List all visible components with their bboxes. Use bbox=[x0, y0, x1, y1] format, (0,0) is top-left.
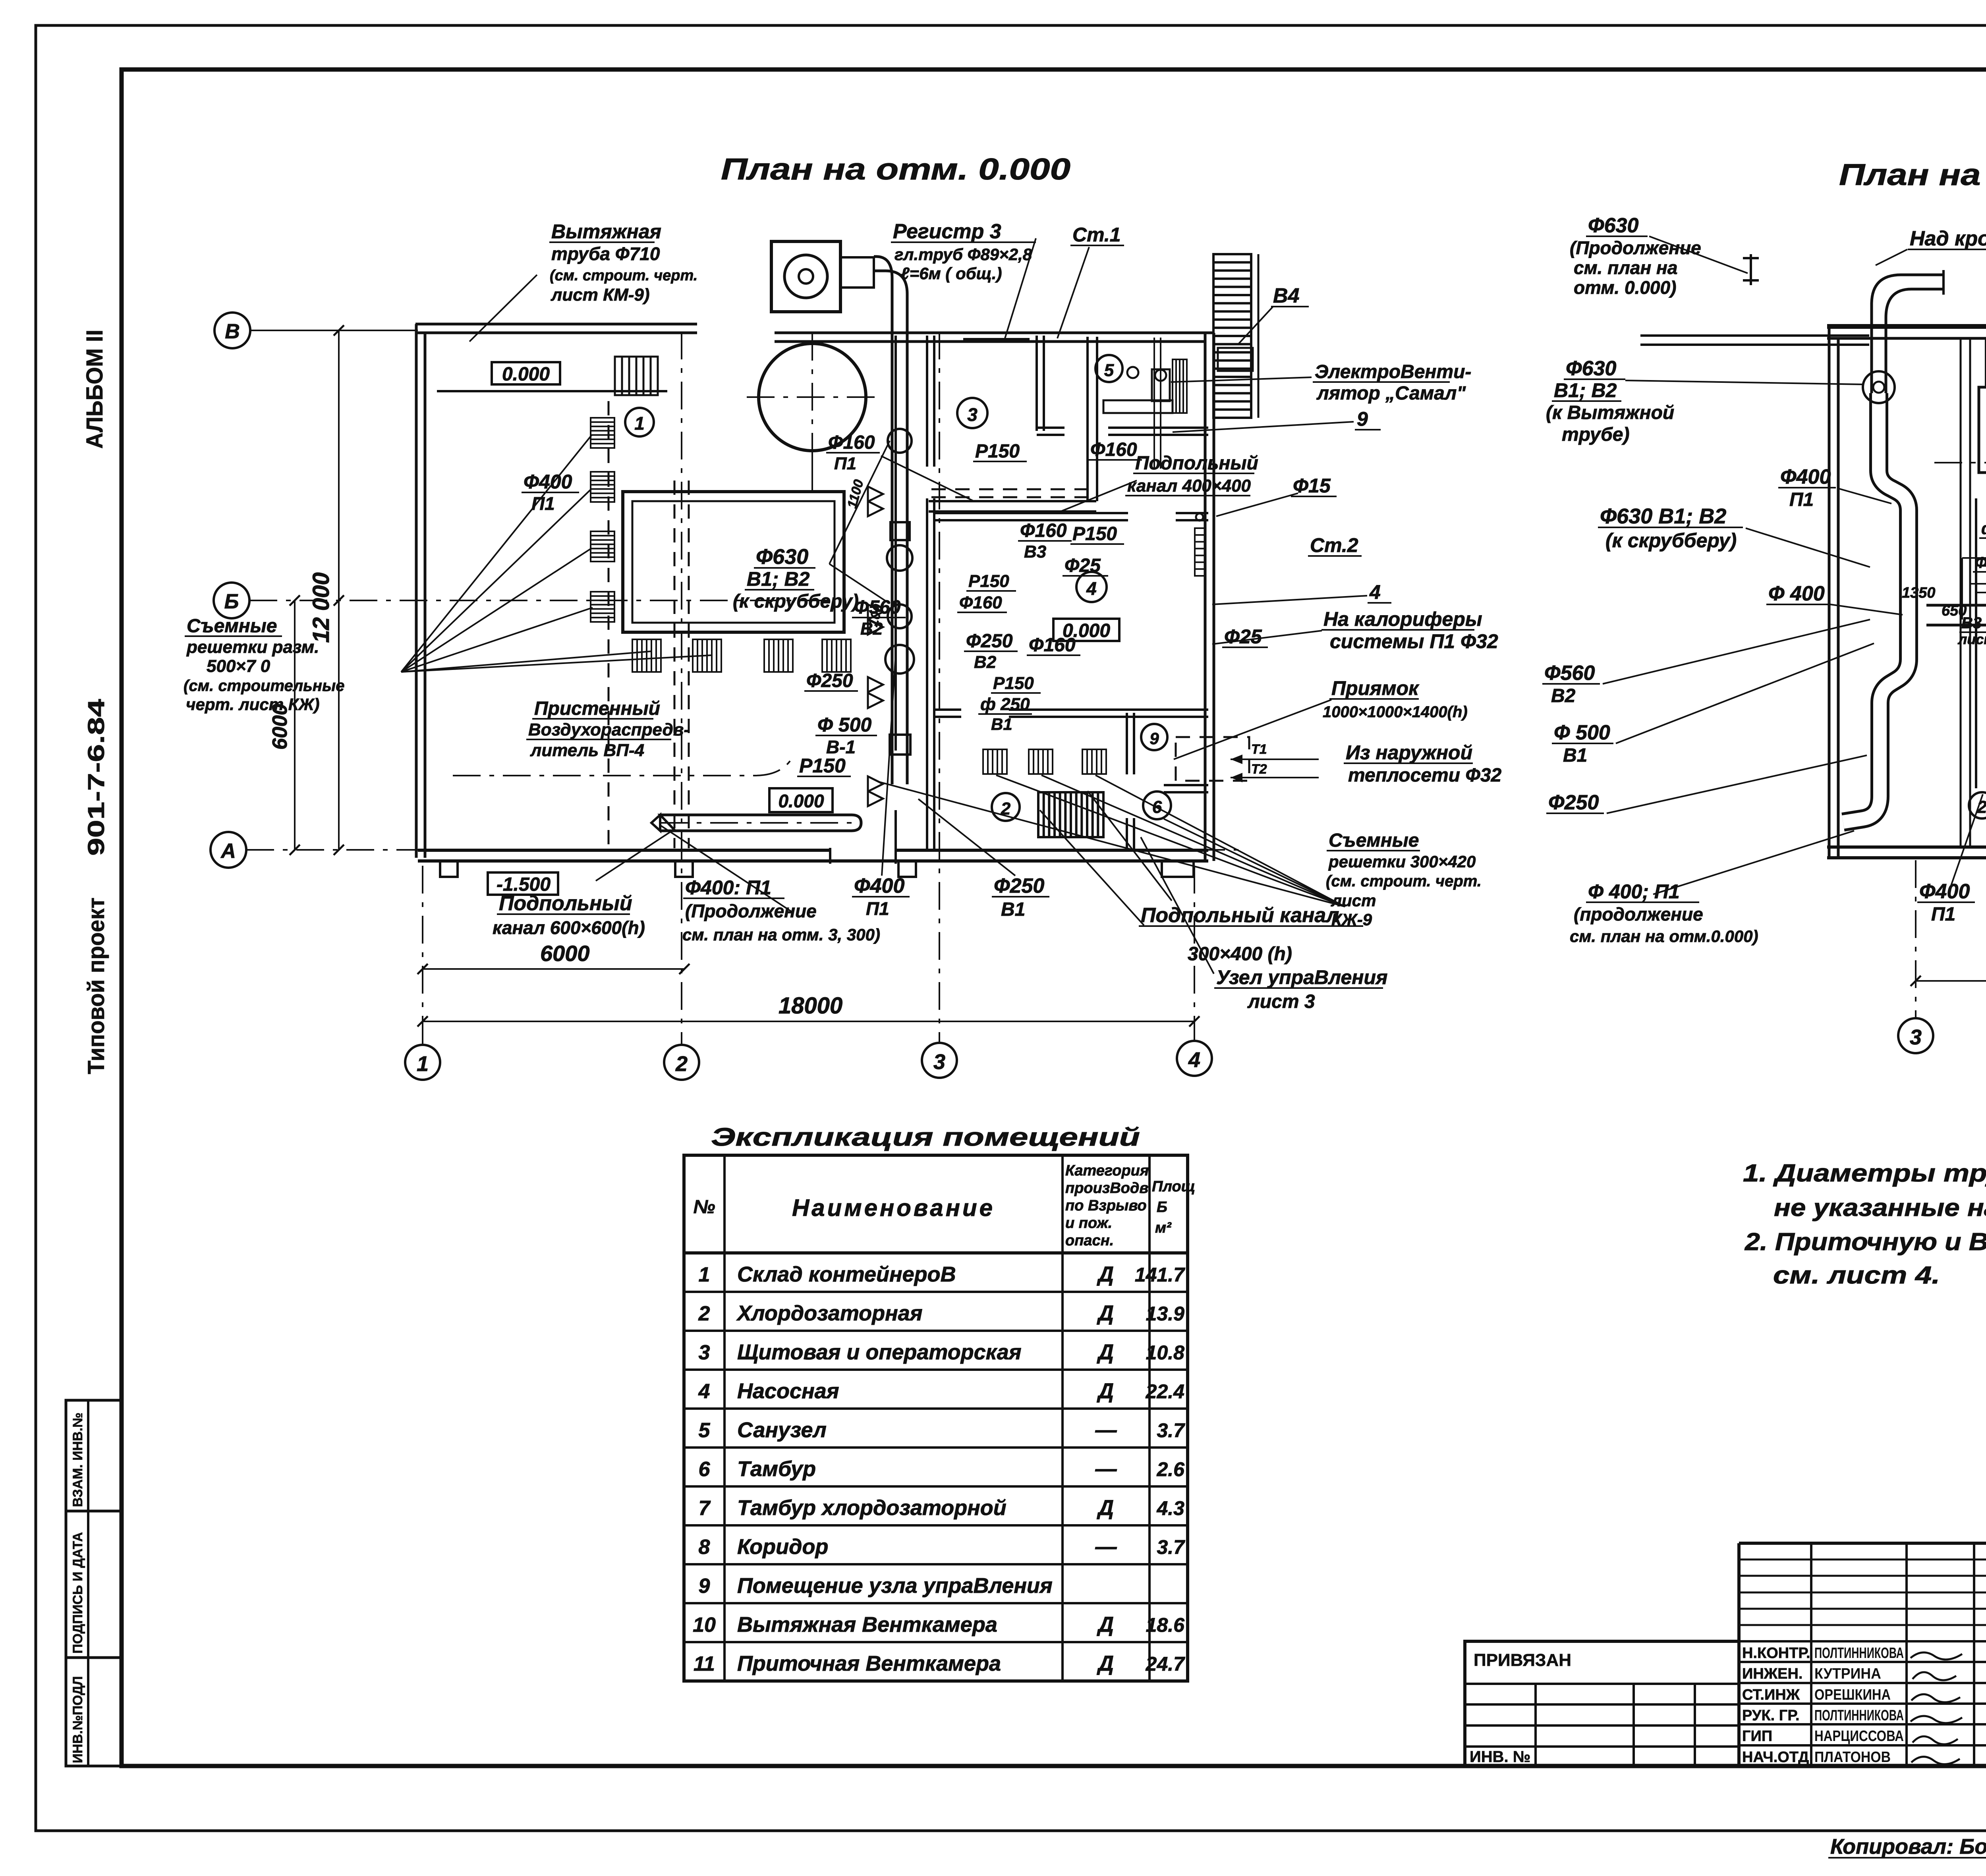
svg-text:НАРЦИССОВА: НАРЦИССОВА bbox=[1814, 1728, 1904, 1745]
level box 0.000 bottom bbox=[769, 788, 833, 812]
explication table frame bbox=[684, 1155, 1188, 1681]
svg-text:Ф630: Ф630 bbox=[1588, 214, 1638, 237]
svg-text:и пож.: и пож. bbox=[1065, 1215, 1112, 1231]
svg-text:Ф160: Ф160 bbox=[1029, 635, 1076, 656]
svg-text:1350: 1350 bbox=[1902, 585, 1936, 601]
svg-text:ОРЕШКИНА: ОРЕШКИНА bbox=[1814, 1687, 1891, 1703]
svg-text:(продолжение: (продолжение bbox=[1574, 904, 1703, 924]
svg-text:черт. лист КЖ): черт. лист КЖ) bbox=[186, 695, 320, 714]
heater unit 1 bbox=[1979, 387, 1986, 473]
svg-text:Подпольный: Подпольный bbox=[499, 892, 632, 915]
leader podpolny 600x600 bbox=[596, 831, 672, 881]
svg-text:м²: м² bbox=[1155, 1220, 1172, 1236]
svg-text:Приямок: Приямок bbox=[1331, 677, 1420, 699]
svg-text:(к скрубберу): (к скрубберу) bbox=[733, 591, 859, 612]
svg-text:НАЧ.ОТД: НАЧ.ОТД bbox=[1742, 1749, 1809, 1766]
grid bubble В left bbox=[214, 313, 250, 348]
svg-text:План на отм. 0.000: План на отм. 0.000 bbox=[721, 152, 1070, 186]
svg-text:Из наружной: Из наружной bbox=[1346, 741, 1472, 764]
room2 stair bbox=[1038, 792, 1103, 837]
svg-text:Ф400: Ф400 bbox=[524, 471, 572, 493]
top fitting symbol bbox=[1750, 254, 1752, 285]
svg-text:Узел упраВления: Узел упраВления bbox=[1216, 966, 1387, 988]
svg-text:2: 2 bbox=[675, 1052, 688, 1076]
underfloor channel room3 dashed bbox=[931, 488, 1086, 490]
svg-text:0.000: 0.000 bbox=[502, 364, 550, 385]
svg-text:Ф630 В1; В2: Ф630 В1; В2 bbox=[1600, 504, 1726, 528]
svg-text:см. план на отм.0.000): см. план на отм.0.000) bbox=[1570, 927, 1758, 946]
bottom axis bubble 3 bbox=[922, 1043, 957, 1078]
svg-text:Р150: Р150 bbox=[968, 571, 1009, 591]
svg-text:ВЗАМ. ИНВ.№: ВЗАМ. ИНВ.№ bbox=[70, 1413, 85, 1507]
leader uzel upravleniya bbox=[1141, 837, 1214, 974]
svg-text:Вытяжная Венткамера: Вытяжная Венткамера bbox=[737, 1613, 997, 1637]
svg-text:Типовой проект: Типовой проект bbox=[83, 897, 109, 1074]
svg-text:5: 5 bbox=[1104, 361, 1114, 380]
svg-text:А: А bbox=[220, 840, 236, 863]
svg-text:П1: П1 bbox=[531, 493, 555, 514]
svg-text:500×7 0: 500×7 0 bbox=[207, 656, 270, 676]
main vertical duct pair bbox=[891, 336, 894, 784]
svg-text:Съемные: Съемные bbox=[1329, 830, 1419, 851]
svg-text:9: 9 bbox=[1149, 729, 1159, 748]
grid bubble Б left bbox=[214, 583, 249, 618]
table row line 2 bbox=[684, 1330, 1188, 1332]
axis line А bbox=[246, 849, 1243, 851]
svg-text:Подпольный: Подпольный bbox=[1135, 453, 1258, 474]
svg-text:ЭлектроВенти-: ЭлектроВенти- bbox=[1315, 361, 1471, 382]
svg-text:Т2: Т2 bbox=[1251, 762, 1267, 777]
svg-text:Ф250: Ф250 bbox=[1548, 791, 1599, 814]
svg-text:ПРИВЯЗАН: ПРИВЯЗАН bbox=[1474, 1650, 1571, 1670]
svg-text:—: — bbox=[1095, 1457, 1117, 1481]
svg-text:решетки 300×420: решетки 300×420 bbox=[1328, 852, 1476, 871]
table row line 8 bbox=[684, 1563, 1188, 1565]
svg-text:ИНВ. №: ИНВ. № bbox=[1470, 1748, 1530, 1766]
svg-text:3: 3 bbox=[933, 1050, 945, 1074]
leader St1 bbox=[1057, 247, 1089, 338]
svg-text:Д: Д bbox=[1097, 1301, 1114, 1325]
long floor duct with arrow bbox=[660, 815, 861, 831]
wall bottom bbox=[418, 849, 1208, 852]
hatched strip room5 bbox=[1173, 359, 1187, 413]
vertical dim 12000 bbox=[338, 330, 340, 850]
svg-text:(см. строительные: (см. строительные bbox=[184, 677, 344, 695]
leader f15 bbox=[1216, 493, 1298, 516]
svg-text:Тамбур хлордозаторной: Тамбур хлордозаторной bbox=[737, 1496, 1007, 1520]
leader vytyazhnaya truba bbox=[469, 275, 537, 342]
svg-text:На калориферы: На калориферы bbox=[1323, 608, 1482, 630]
leader 9 bbox=[1173, 422, 1354, 432]
bottom axis bubble 1 bbox=[405, 1045, 440, 1080]
svg-text:теплосети Ф32: теплосети Ф32 bbox=[1348, 765, 1502, 786]
svg-text:П1: П1 bbox=[866, 898, 889, 919]
duct devices circles bbox=[888, 429, 912, 453]
svg-text:2. Приточную и Вытяжную Вент: 2. Приточную и Вытяжную Венткамеры bbox=[1745, 1228, 1986, 1256]
electro ventilator bbox=[1152, 369, 1170, 401]
svg-text:Ст.1: Ст.1 bbox=[1072, 224, 1121, 246]
vertical riser pair center bbox=[1975, 498, 1977, 788]
svg-text:лист 3: лист 3 bbox=[1247, 991, 1315, 1012]
svg-text:0.000: 0.000 bbox=[778, 791, 824, 811]
wall grilles hatched left bbox=[591, 418, 614, 448]
svg-text:7: 7 bbox=[699, 1497, 711, 1520]
svg-text:Д: Д bbox=[1097, 1379, 1114, 1403]
svg-text:КУТРИНА: КУТРИНА bbox=[1814, 1666, 1881, 1682]
svg-text:Приточная Венткамера: Приточная Венткамера bbox=[737, 1652, 1001, 1675]
tambour6 wall stub bbox=[1164, 784, 1208, 786]
svg-text:(Продолжение: (Продолжение bbox=[685, 901, 817, 921]
S duct main bbox=[1843, 393, 1909, 822]
svg-text:В4: В4 bbox=[1273, 284, 1300, 307]
svg-text:П1: П1 bbox=[1789, 489, 1814, 510]
svg-text:П1: П1 bbox=[1931, 904, 1955, 925]
svg-text:Ст.2: Ст.2 bbox=[1310, 534, 1358, 556]
svg-text:Ф15: Ф15 bbox=[1975, 554, 1986, 571]
duct elbow from vent block bbox=[874, 257, 892, 336]
right plan axis bubbles 3 and 4 bbox=[1898, 1018, 1933, 1053]
svg-text:Ф160: Ф160 bbox=[1020, 520, 1067, 541]
svg-text:3: 3 bbox=[1910, 1025, 1922, 1049]
table row line 5 bbox=[684, 1446, 1188, 1449]
B4 box bbox=[1218, 348, 1253, 371]
VP-4 air distributor rectangle bbox=[623, 492, 844, 632]
svg-text:Р150: Р150 bbox=[1072, 523, 1117, 544]
svg-text:В1; В2: В1; В2 bbox=[747, 568, 810, 590]
svg-text:Ф160: Ф160 bbox=[959, 593, 1002, 612]
svg-text:4.3: 4.3 bbox=[1156, 1497, 1184, 1519]
svg-text:Насосная: Насосная bbox=[737, 1379, 839, 1403]
svg-text:6: 6 bbox=[699, 1458, 711, 1481]
svg-text:РУК. ГР.: РУК. ГР. bbox=[1742, 1707, 1800, 1724]
table row line 1 bbox=[684, 1291, 1188, 1293]
canopy inner line bbox=[437, 390, 667, 392]
heating register bbox=[963, 338, 1030, 343]
svg-text:ПЛАТОНОВ: ПЛАТОНОВ bbox=[1814, 1749, 1891, 1766]
svg-text:9: 9 bbox=[699, 1575, 710, 1598]
svg-text:141.7: 141.7 bbox=[1135, 1264, 1185, 1286]
svg-text:Санузел: Санузел bbox=[737, 1418, 827, 1442]
bottom axis bubble 4 bbox=[1177, 1041, 1212, 1076]
svg-text:12 000: 12 000 bbox=[308, 572, 334, 643]
svg-text:Копировал: Боброва: Копировал: Боброва bbox=[1830, 1835, 1986, 1859]
svg-text:Ф250: Ф250 bbox=[966, 631, 1013, 652]
title block personnel grid bbox=[1737, 1543, 1741, 1766]
svg-text:Над кроВлей: Над кроВлей bbox=[1910, 227, 1986, 250]
axis line Б bbox=[249, 600, 834, 601]
leaders podpolny 300x400 bbox=[1088, 791, 1172, 901]
svg-text:Вытяжная: Вытяжная bbox=[551, 220, 661, 243]
svg-text:План на отм. 3.300: План на отм. 3.300 bbox=[1839, 158, 1986, 192]
svg-text:опасн.: опасн. bbox=[1065, 1232, 1114, 1249]
wall top main bbox=[775, 332, 1214, 334]
svg-text:Ф160: Ф160 bbox=[828, 432, 875, 453]
svg-text:Склад контейнероВ: Склад контейнероВ bbox=[737, 1262, 956, 1286]
leader priyamok bbox=[1174, 700, 1331, 759]
svg-text:1000×1000×1400(h): 1000×1000×1400(h) bbox=[1323, 703, 1468, 721]
svg-text:Тамбур: Тамбур bbox=[737, 1457, 816, 1481]
table row line 4 bbox=[684, 1407, 1188, 1410]
centerline P1 bbox=[1934, 462, 1986, 463]
table row line 6 bbox=[684, 1485, 1188, 1488]
axis line В bbox=[250, 330, 418, 331]
svg-text:СТ.ИНЖ: СТ.ИНЖ bbox=[1742, 1687, 1800, 1703]
svg-text:Наименование: Наименование bbox=[792, 1195, 995, 1221]
svg-text:8: 8 bbox=[699, 1536, 710, 1559]
svg-text:Помещение узла упраВления: Помещение узла упраВления bbox=[737, 1574, 1053, 1598]
extra pipe lines cluster bbox=[1969, 583, 1986, 585]
svg-text:901-7-6.84: 901-7-6.84 bbox=[83, 699, 109, 856]
svg-text:Ф160: Ф160 bbox=[1090, 439, 1137, 460]
svg-text:4: 4 bbox=[1188, 1048, 1200, 1072]
interior wall room4/2 bbox=[934, 708, 961, 711]
svg-text:18000: 18000 bbox=[779, 993, 842, 1019]
svg-text:решетки разм.: решетки разм. bbox=[186, 637, 319, 657]
svg-text:ПОЛТИННИКОВА: ПОЛТИННИКОВА bbox=[1814, 1707, 1904, 1724]
svg-text:ф32: ф32 bbox=[1981, 519, 1986, 538]
svg-text:системы П1 Ф32: системы П1 Ф32 bbox=[1330, 630, 1498, 652]
svg-text:Д: Д bbox=[1097, 1340, 1114, 1364]
wall right bbox=[1204, 333, 1207, 861]
svg-text:АЛЬБОМ II: АЛЬБОМ II bbox=[82, 330, 108, 449]
svg-text:3.7: 3.7 bbox=[1157, 1419, 1185, 1442]
svg-text:см. план на отм. 3, 300): см. план на отм. 3, 300) bbox=[682, 925, 880, 944]
svg-text:1. Диаметры труб системы от: 1. Диаметры труб системы отопления, bbox=[1743, 1160, 1986, 1187]
stair side line bbox=[1258, 254, 1260, 418]
svg-text:Н.КОНТР.: Н.КОНТР. bbox=[1742, 1645, 1810, 1662]
door opening bottom wall bbox=[830, 846, 896, 859]
tank axis line down bbox=[811, 447, 813, 492]
svg-text:10.8: 10.8 bbox=[1146, 1341, 1185, 1364]
svg-text:литель ВП-4: литель ВП-4 bbox=[530, 741, 644, 760]
Т pipes room5 bbox=[1153, 338, 1155, 469]
left margin stamp table bbox=[66, 1400, 122, 1766]
leader register bbox=[1005, 238, 1036, 338]
level box 0.000 room4 bbox=[1053, 619, 1119, 641]
svg-text:В1; В2: В1; В2 bbox=[1554, 379, 1617, 401]
duct top riser bbox=[1872, 275, 1943, 393]
svg-text:гл.труб Ф89×2,8: гл.труб Ф89×2,8 bbox=[894, 245, 1032, 264]
leader prodolzhenie bbox=[660, 825, 791, 911]
svg-text:по Взрыво: по Взрыво bbox=[1065, 1197, 1147, 1214]
axis stems bottom bbox=[422, 866, 423, 1045]
table row line 9 bbox=[684, 1602, 1188, 1604]
leader f400 p1 bottom bbox=[882, 647, 896, 876]
svg-text:ПОЛТИННИКОВА: ПОЛТИННИКОВА bbox=[1814, 1645, 1904, 1662]
table row line 7 bbox=[684, 1524, 1188, 1527]
room5 wall vertical bbox=[1036, 336, 1038, 431]
svg-text:Пристенный: Пристенный bbox=[534, 698, 660, 719]
interior wall room3/4 bbox=[934, 512, 1128, 514]
level box -1.500 bbox=[488, 872, 558, 895]
svg-text:Ф250: Ф250 bbox=[806, 670, 853, 691]
mid horizontal duct bbox=[1926, 605, 1986, 625]
svg-text:(к Вытяжной: (к Вытяжной bbox=[1546, 402, 1674, 423]
svg-text:В2: В2 bbox=[1551, 685, 1576, 706]
svg-text:Ф630: Ф630 bbox=[756, 545, 808, 569]
wall left bbox=[415, 324, 418, 858]
monorail dashdot bbox=[453, 760, 790, 776]
leader electro fan bbox=[1171, 377, 1312, 382]
svg-text:Р150: Р150 bbox=[799, 755, 846, 777]
svg-text:Ф250: Ф250 bbox=[994, 874, 1044, 897]
svg-text:№: № bbox=[693, 1197, 715, 1218]
svg-text:Ф25: Ф25 bbox=[1224, 625, 1262, 648]
svg-text:канал 400×400: канал 400×400 bbox=[1127, 476, 1251, 496]
svg-text:Д: Д bbox=[1097, 1613, 1114, 1637]
fitting bar room4 bbox=[1195, 528, 1205, 576]
dashed wall line left bbox=[608, 401, 610, 850]
svg-text:Ф 400: Ф 400 bbox=[1768, 582, 1825, 605]
room5 wc bbox=[1127, 367, 1138, 378]
svg-text:18.6: 18.6 bbox=[1146, 1614, 1185, 1636]
svg-text:Б: Б bbox=[224, 590, 239, 613]
bottom dim 18000 bbox=[423, 1021, 1194, 1022]
svg-text:ℓ=6м ( общ.): ℓ=6м ( общ.) bbox=[901, 264, 1002, 283]
svg-text:Щитовая и операторская: Щитовая и операторская bbox=[737, 1340, 1022, 1364]
svg-text:В1: В1 bbox=[991, 715, 1012, 733]
svg-text:Регистр 3: Регистр 3 bbox=[893, 220, 1001, 243]
svg-text:Хлордозаторная: Хлордозаторная bbox=[736, 1301, 923, 1325]
svg-text:1: 1 bbox=[417, 1052, 429, 1076]
leader f630 fan bbox=[829, 564, 890, 604]
svg-text:Ф400: Ф400 bbox=[854, 874, 904, 897]
svg-text:Ф560: Ф560 bbox=[1544, 662, 1595, 685]
svg-text:(см. строит. черт.: (см. строит. черт. bbox=[1326, 872, 1482, 890]
svg-text:В1: В1 bbox=[1001, 899, 1025, 920]
canopy stair hatch bbox=[615, 357, 658, 395]
svg-text:Ф400: П1: Ф400: П1 bbox=[685, 876, 771, 899]
svg-text:В1: В1 bbox=[1563, 745, 1587, 766]
leader na kalorifery bbox=[1212, 631, 1322, 644]
right bottom dim 6000 bbox=[1916, 980, 1986, 982]
exterior stair hatched right bbox=[1213, 254, 1251, 418]
pilaster stubs bbox=[440, 861, 458, 877]
svg-text:Воздухораспредв-: Воздухораспредв- bbox=[528, 720, 690, 739]
svg-text:не указанные на планах, прин: не указанные на планах, принять ф=15мм. bbox=[1774, 1194, 1986, 1222]
svg-text:2.6: 2.6 bbox=[1156, 1458, 1185, 1480]
leader B4 bbox=[1238, 307, 1273, 344]
svg-text:трубе): трубе) bbox=[1562, 424, 1629, 445]
svg-text:11: 11 bbox=[694, 1652, 715, 1675]
svg-text:1: 1 bbox=[699, 1263, 710, 1286]
svg-text:канал 600×600(h): канал 600×600(h) bbox=[493, 917, 645, 938]
room5 wall horizontal bbox=[1037, 427, 1064, 429]
svg-text:4: 4 bbox=[1086, 578, 1097, 599]
svg-text:22.4: 22.4 bbox=[1146, 1380, 1184, 1403]
room bubble 2 right plan bbox=[1969, 792, 1986, 818]
svg-text:ИНЖЕН.: ИНЖЕН. bbox=[1742, 1666, 1802, 1682]
svg-text:см. лист 4.: см. лист 4. bbox=[1773, 1262, 1940, 1289]
svg-text:24.7: 24.7 bbox=[1146, 1653, 1186, 1675]
leader removable grilles right bbox=[996, 775, 1345, 907]
svg-text:ф 250: ф 250 bbox=[980, 695, 1030, 714]
svg-text:ИНВ.№ПОДЛ: ИНВ.№ПОДЛ bbox=[70, 1676, 85, 1763]
svg-text:отм. 0.000): отм. 0.000) bbox=[1574, 277, 1676, 298]
leader 4 bbox=[1212, 596, 1367, 604]
svg-text:Д: Д bbox=[1097, 1652, 1114, 1675]
svg-text:4: 4 bbox=[698, 1380, 710, 1403]
svg-text:В2: В2 bbox=[974, 652, 997, 672]
outer wall top-left canopy bbox=[415, 323, 697, 326]
svg-text:2: 2 bbox=[698, 1302, 710, 1325]
svg-text:Ф25: Ф25 bbox=[1064, 555, 1101, 576]
svg-text:Д: Д bbox=[1097, 1496, 1114, 1520]
interior wall rooms 2/9 bbox=[1126, 713, 1128, 774]
svg-text:Ф 500: Ф 500 bbox=[1554, 721, 1610, 744]
interior corridor wall left bbox=[894, 336, 897, 751]
room2 grilles bbox=[983, 749, 1007, 774]
svg-text:лист4: лист4 bbox=[1957, 631, 1986, 647]
svg-text:Р150: Р150 bbox=[993, 674, 1034, 693]
privyazan box bbox=[1465, 1641, 1739, 1766]
svg-text:1: 1 bbox=[634, 413, 645, 434]
svg-text:труба Ф710: труба Ф710 bbox=[551, 243, 660, 264]
svg-text:4: 4 bbox=[1369, 581, 1381, 603]
svg-text:13.9: 13.9 bbox=[1146, 1303, 1185, 1325]
level box 0.000 top-left bbox=[492, 362, 560, 384]
room3 duct horizontal bbox=[929, 500, 1096, 502]
svg-text:лятор „Самал": лятор „Самал" bbox=[1316, 383, 1466, 404]
right plan wall left bbox=[1828, 326, 1831, 858]
grilles row under VP-4 bbox=[632, 639, 661, 672]
leader f160 p1 to duct bbox=[881, 456, 974, 501]
svg-text:Ф400: Ф400 bbox=[1919, 880, 1970, 903]
vertical dim 6000 left bbox=[294, 600, 296, 850]
svg-text:В3: В3 bbox=[1024, 542, 1046, 562]
right plan wall bottom bbox=[1827, 845, 1986, 849]
underfloor channel 600x600 dashed bbox=[674, 481, 676, 848]
svg-text:Коридор: Коридор bbox=[737, 1535, 828, 1559]
svg-text:Д: Д bbox=[1097, 1262, 1114, 1286]
svg-text:лист КМ-9): лист КМ-9) bbox=[551, 285, 650, 305]
svg-text:Ф630: Ф630 bbox=[1566, 357, 1616, 380]
bottom axis bubble 2 bbox=[664, 1045, 699, 1080]
svg-text:ПОДПИСЬ И ДАТА: ПОДПИСЬ И ДАТА bbox=[70, 1532, 85, 1654]
room number bubbles left plan bbox=[625, 408, 654, 436]
svg-text:300×400 (h): 300×400 (h) bbox=[1188, 944, 1292, 965]
svg-text:—: — bbox=[1095, 1418, 1117, 1442]
svg-text:Б: Б bbox=[1157, 1199, 1167, 1216]
svg-text:650: 650 bbox=[1942, 602, 1967, 619]
svg-text:произВодв: произВодв bbox=[1065, 1180, 1148, 1197]
svg-text:ГИП: ГИП bbox=[1742, 1728, 1772, 1745]
pit dashed bbox=[1176, 737, 1249, 781]
svg-text:Экспликация помещений: Экспликация помещений bbox=[711, 1123, 1140, 1151]
svg-text:3.7: 3.7 bbox=[1157, 1536, 1185, 1558]
vent pipe square block bbox=[771, 241, 840, 312]
right plan canopy line left bbox=[1640, 334, 1869, 337]
svg-text:Ф 400; П1: Ф 400; П1 bbox=[1588, 880, 1680, 903]
right plan walls top bbox=[1827, 324, 1986, 329]
bottom dim 6000 bbox=[423, 968, 684, 970]
svg-text:Р150: Р150 bbox=[975, 441, 1020, 462]
svg-text:Ф400: Ф400 bbox=[1780, 465, 1831, 488]
svg-text:Подпольный канал: Подпольный канал bbox=[1141, 904, 1339, 927]
svg-text:6000: 6000 bbox=[540, 941, 590, 966]
svg-text:5: 5 bbox=[699, 1419, 711, 1442]
svg-text:см. план на: см. план на bbox=[1574, 257, 1677, 278]
svg-text:10: 10 bbox=[693, 1614, 716, 1637]
svg-text:Ф 500: Ф 500 bbox=[817, 714, 872, 736]
table row line 10 bbox=[684, 1641, 1188, 1643]
svg-text:Ф15: Ф15 bbox=[1293, 475, 1331, 497]
svg-text:(к скрубберу): (к скрубберу) bbox=[1605, 529, 1737, 552]
svg-text:Площ: Площ bbox=[1152, 1178, 1195, 1195]
svg-text:3: 3 bbox=[699, 1341, 710, 1364]
tank circle bbox=[759, 344, 866, 451]
svg-text:Т1: Т1 bbox=[1251, 742, 1267, 757]
